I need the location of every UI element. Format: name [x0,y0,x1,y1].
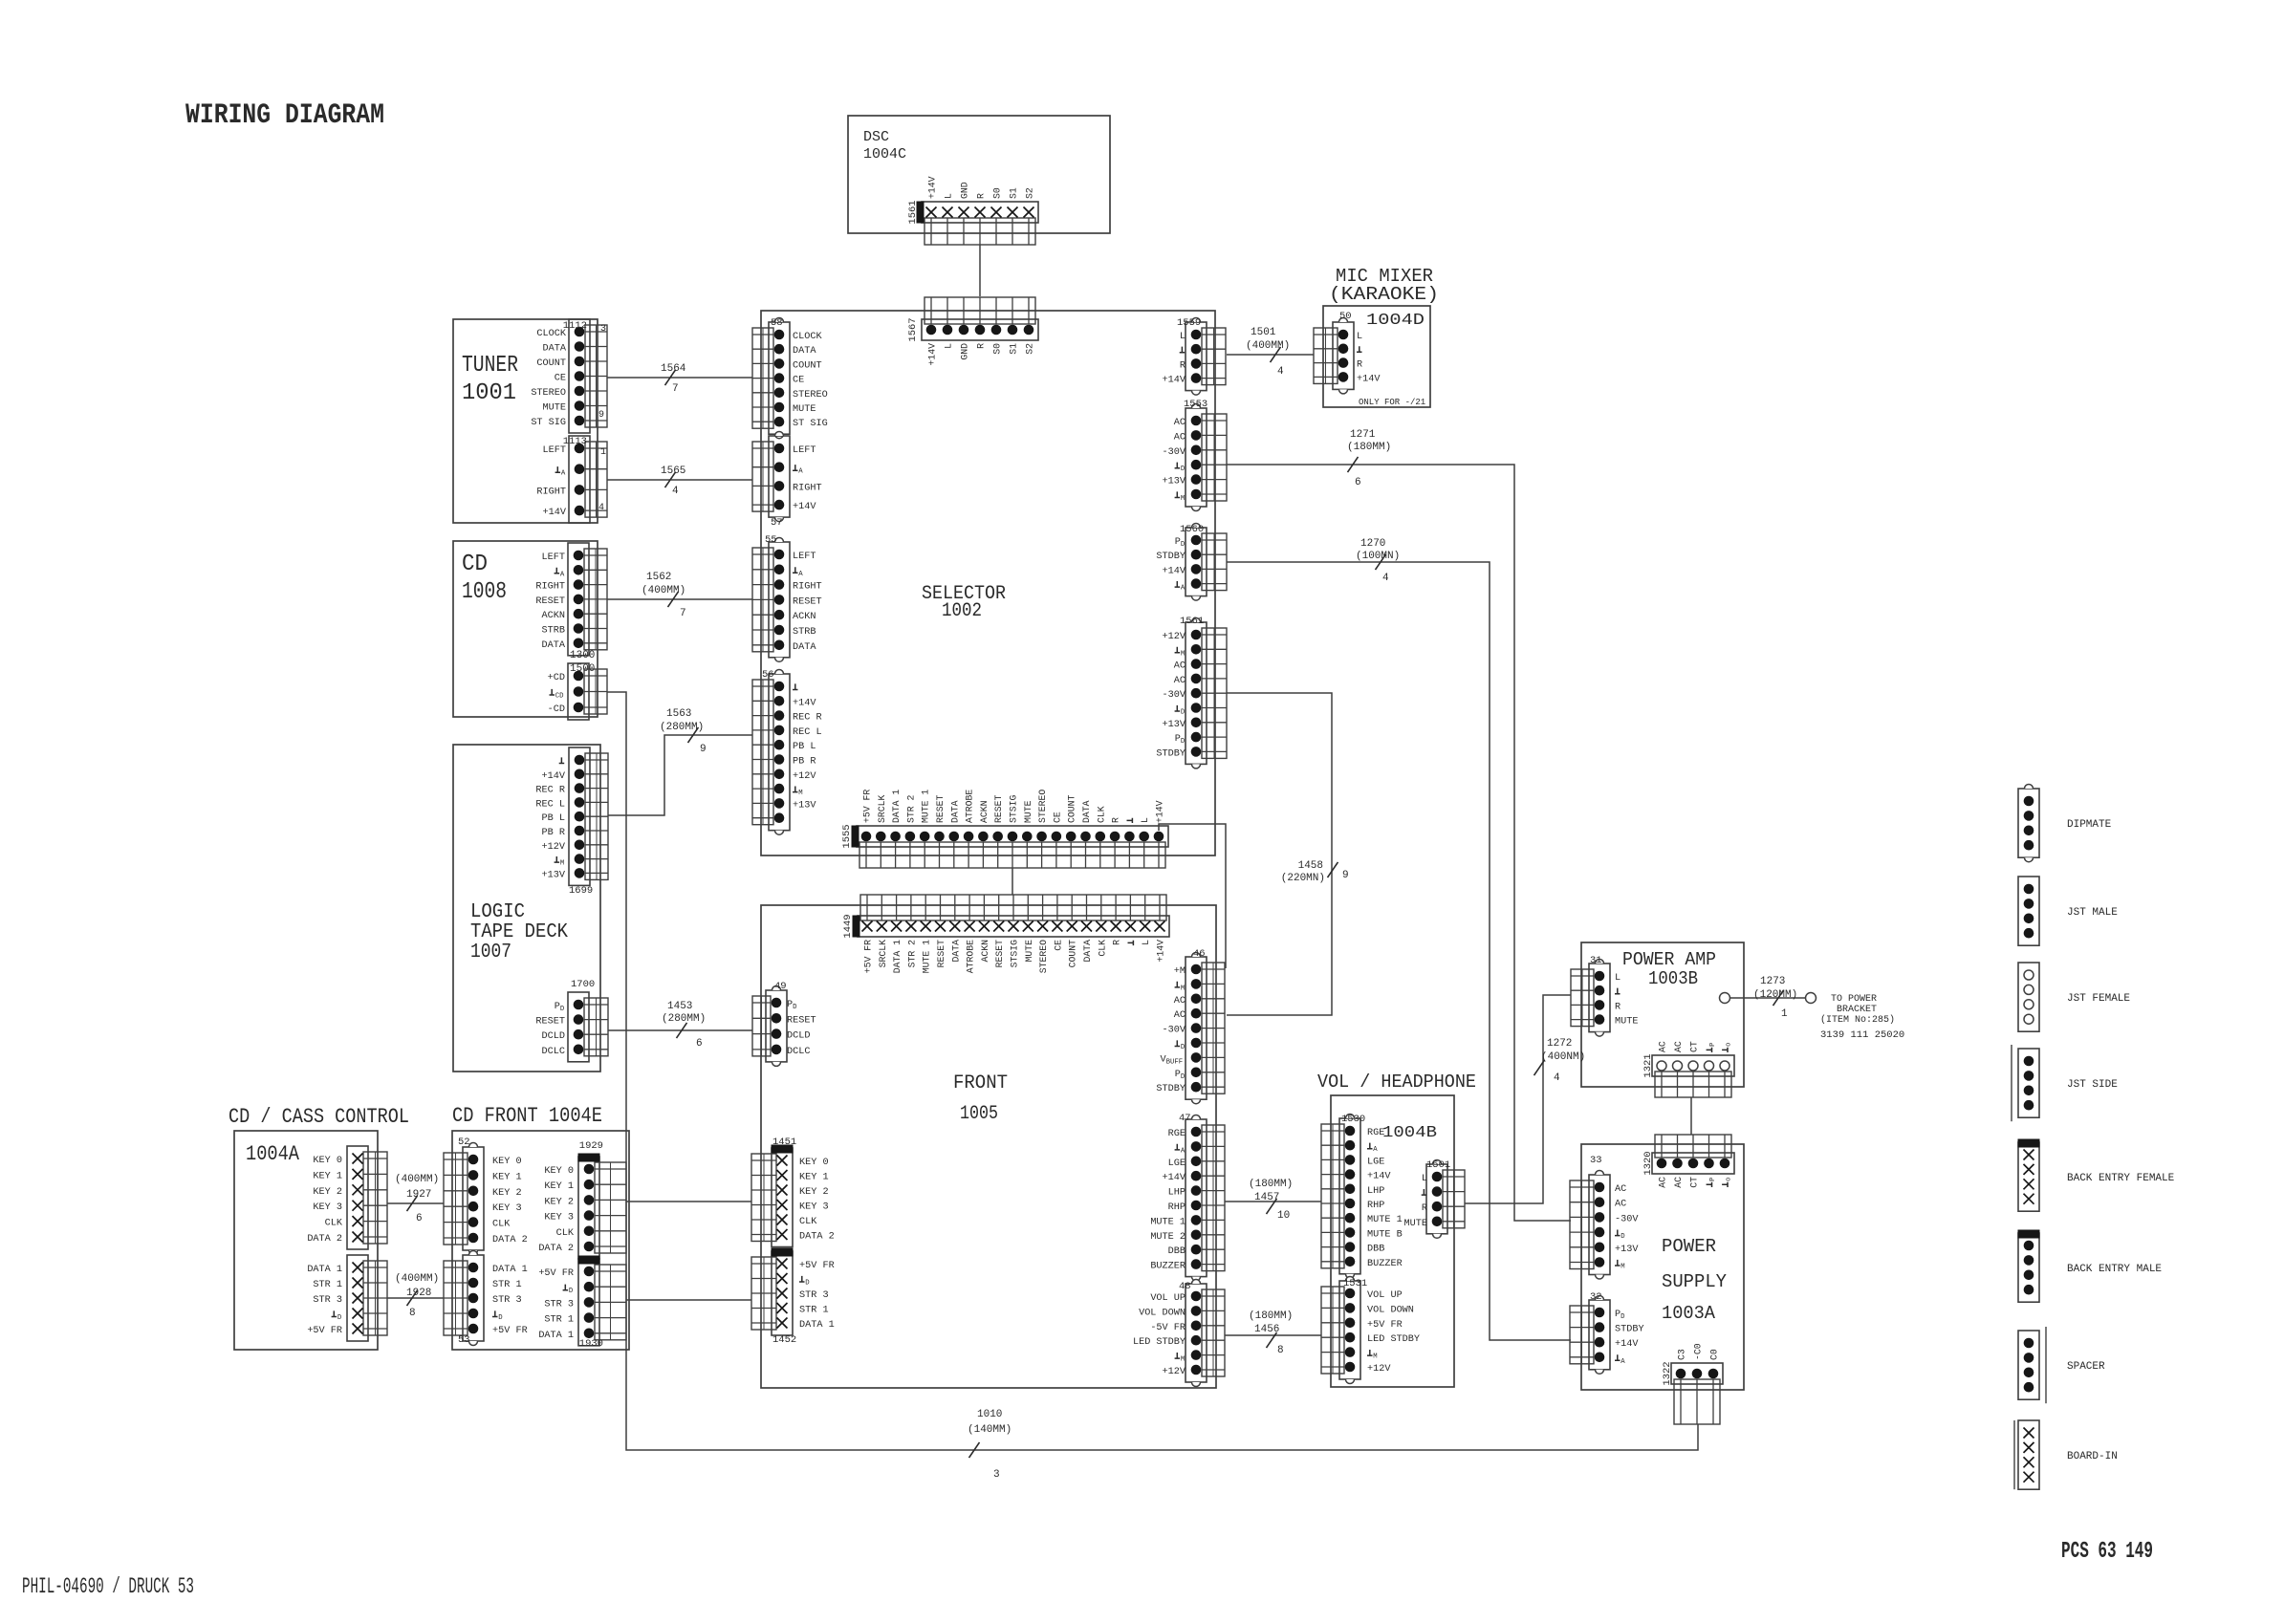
svg-text:31: 31 [1590,955,1602,966]
svg-text:DATA 2: DATA 2 [799,1232,835,1243]
wire 1453 [608,1001,752,1050]
svg-text:+CD: +CD [548,673,565,683]
svg-text:1700: 1700 [571,979,595,990]
svg-text:S1: S1 [1009,187,1019,199]
svg-text:AC: AC [1174,661,1186,672]
module title MIC MIXER (KARAOKE) [1329,266,1439,305]
svg-text:STSIG: STSIG [1009,794,1019,823]
svg-text:S0: S0 [992,343,1003,355]
svg-text:+14V: +14V [927,176,938,199]
svg-text:8: 8 [409,1308,416,1319]
svg-text:LEFT: LEFT [793,552,816,562]
svg-text:+14V: +14V [793,502,816,512]
svg-text:AC: AC [1174,432,1186,443]
svg-text:1005: 1005 [960,1103,998,1125]
svg-text:(400NM): (400NM) [1541,1051,1585,1063]
svg-text:REC R: REC R [793,713,822,724]
svg-text:R: R [1111,817,1121,823]
svg-text:BOARD-IN: BOARD-IN [2067,1451,2118,1462]
legend BOARD-IN [2014,1420,2118,1489]
svg-text:+5V FR: +5V FR [1367,1320,1403,1331]
svg-text:BUZZER: BUZZER [1367,1259,1403,1269]
svg-text:KEY 3: KEY 3 [492,1203,522,1214]
svg-text:PB R: PB R [542,828,565,838]
svg-text:1553: 1553 [1184,399,1207,410]
svg-text:+12V: +12V [793,771,816,782]
svg-text:LEFT: LEFT [793,445,816,456]
legend BACK ENTRY FEMALE [2018,1139,2175,1211]
connector 1930 (cd front) [538,1256,626,1350]
svg-text:1272: 1272 [1547,1038,1572,1050]
connector 1531 (vol/headphone) [1321,1277,1420,1384]
svg-text:9: 9 [700,744,707,755]
legend SPACER [2018,1327,2105,1403]
svg-text:DATA: DATA [949,800,960,823]
svg-text:+14V: +14V [542,771,566,782]
svg-text:1567: 1567 [907,317,919,341]
svg-text:MUTE 1: MUTE 1 [1150,1217,1186,1227]
svg-text:DBB: DBB [1367,1245,1384,1255]
svg-text:1113: 1113 [563,436,587,447]
svg-text:1559: 1559 [1177,317,1201,329]
svg-text:+5V FR: +5V FR [863,940,874,973]
svg-text:1530: 1530 [1341,1114,1365,1125]
svg-text:CE: CE [1053,940,1063,951]
svg-text:+14V: +14V [1155,800,1165,823]
svg-text:DATA 1: DATA 1 [492,1265,528,1275]
svg-text:LEFT: LEFT [542,552,565,563]
svg-text:D: D [337,1314,342,1322]
svg-text:+14V: +14V [793,698,816,708]
svg-text:P: P [1709,1178,1717,1181]
svg-text:56: 56 [762,669,774,681]
svg-text:STR 1: STR 1 [544,1315,574,1326]
svg-text:ACKN: ACKN [980,940,990,963]
svg-text:+5V FR: +5V FR [492,1326,528,1336]
svg-text:TUNER: TUNER [462,353,518,379]
svg-text:(400MM): (400MM) [395,1273,439,1285]
svg-text:+13V: +13V [1163,477,1186,487]
svg-text:KEY 1: KEY 1 [313,1171,342,1181]
legend JST FEMALE [2018,963,2130,1031]
connector 1112 (tuner) [531,319,607,433]
svg-text:+13V: +13V [793,800,816,811]
wire 1321 to 1320 [1690,1097,1692,1135]
svg-text:(120MM): (120MM) [1753,989,1797,1001]
svg-text:SRCLK: SRCLK [877,794,887,823]
svg-text:1560: 1560 [1180,524,1204,535]
svg-text:LOGIC: LOGIC [470,901,525,923]
svg-text:PHIL-04690 / DRUCK 53: PHIL-04690 / DRUCK 53 [22,1574,194,1599]
svg-text:D: D [569,1288,574,1295]
svg-text:48: 48 [1179,1281,1191,1292]
module title LOGIC TAPE DECK 1007 [470,901,568,964]
svg-text:JST SIDE: JST SIDE [2067,1079,2118,1091]
connector 56 (selector) [752,669,822,834]
wire 1562 [607,572,752,619]
svg-text:R: R [976,343,987,349]
svg-text:KEY 2: KEY 2 [544,1197,574,1207]
svg-text:CD / CASS CONTROL: CD / CASS CONTROL [228,1105,409,1129]
svg-text:STDBY: STDBY [1156,552,1186,562]
connector 48 (front) [1133,1280,1225,1387]
svg-text:+5V FR: +5V FR [538,1268,574,1279]
svg-text:BRACKET: BRACKET [1837,1005,1877,1015]
svg-text:D: D [498,1314,503,1322]
connector 1321 (power amp, jst female) [1642,1041,1734,1097]
svg-text:CD: CD [462,552,488,577]
svg-text:TO POWER: TO POWER [1831,994,1877,1005]
svg-text:DATA 2: DATA 2 [538,1244,574,1254]
svg-text:1452: 1452 [772,1334,796,1346]
wire 1928 [387,1273,444,1319]
svg-text:FRONT: FRONT [953,1072,1008,1094]
svg-text:DATA 2: DATA 2 [492,1235,528,1245]
connector 1320 (power supply) [1642,1135,1734,1188]
svg-text:1928: 1928 [406,1288,431,1299]
svg-text:MUTE B: MUTE B [1367,1229,1403,1240]
svg-text:M: M [1181,1356,1185,1364]
svg-text:STEREO: STEREO [531,388,566,399]
svg-text:1501: 1501 [1426,1159,1450,1171]
wire 1929 to 1451 [626,1201,751,1202]
svg-text:PB R: PB R [793,757,816,768]
svg-text:M: M [1181,650,1185,658]
svg-text:DATA 2: DATA 2 [307,1234,342,1245]
svg-text:KEY 1: KEY 1 [544,1181,574,1192]
wire 1456 [1225,1310,1321,1356]
svg-text:+14V: +14V [543,508,567,518]
svg-text:VOL UP: VOL UP [1367,1290,1403,1301]
svg-text:STDBY: STDBY [1615,1325,1644,1335]
svg-text:1930: 1930 [579,1338,603,1350]
svg-text:RIGHT: RIGHT [536,487,566,497]
legend JST SIDE [2012,1045,2118,1121]
connector 50 (mic mixer) [1314,311,1381,394]
svg-text:+13V: +13V [542,870,566,880]
svg-text:LHP: LHP [1367,1186,1384,1197]
svg-text:VOL DOWN: VOL DOWN [1139,1308,1186,1318]
svg-text:D: D [1181,709,1186,717]
module title CD 1008 [462,552,507,605]
svg-text:L: L [944,343,954,349]
svg-text:6: 6 [416,1213,423,1224]
svg-text:-30V: -30V [1163,690,1186,701]
svg-text:R: R [976,193,987,199]
wire 1565 [607,466,752,497]
svg-text:REC L: REC L [535,799,565,810]
svg-text:+14V: +14V [927,343,938,366]
svg-text:PB L: PB L [793,742,816,752]
svg-text:KEY 0: KEY 0 [313,1156,342,1166]
module box VOL/HEADPHONE 1004B [1331,1095,1454,1387]
svg-text:RIGHT: RIGHT [535,582,565,593]
svg-text:KEY 1: KEY 1 [799,1173,829,1183]
svg-text:CLK: CLK [492,1220,511,1230]
svg-text:SPACER: SPACER [2067,1361,2105,1373]
svg-text:A: A [560,571,565,578]
svg-text:1321: 1321 [1642,1053,1654,1077]
svg-text:1270: 1270 [1360,538,1385,550]
svg-text:(280MM): (280MM) [662,1013,706,1025]
svg-text:ACKN: ACKN [793,612,816,622]
svg-text:PB L: PB L [542,813,565,824]
connector 46 (front) [1156,948,1225,1104]
svg-text:DCLD: DCLD [542,1031,565,1042]
svg-text:-30V: -30V [1163,1026,1186,1036]
svg-text:AC: AC [1673,1177,1684,1188]
module title 1004D [1359,312,1425,407]
svg-text:DATA: DATA [1082,940,1093,963]
connector 1004A lower (back-entry) [307,1255,387,1341]
connector cd lower [548,663,607,720]
svg-text:AC: AC [1615,1200,1626,1210]
connector 1452 (front, back-entry) [751,1248,835,1346]
svg-text:1300: 1300 [570,650,595,661]
svg-text:ACKN: ACKN [542,611,565,621]
svg-text:LHP: LHP [1168,1188,1186,1199]
connector 53 (cd front) [444,1251,528,1347]
svg-text:1451: 1451 [772,1137,796,1148]
svg-text:RIGHT: RIGHT [793,483,822,493]
svg-text:1449: 1449 [842,914,854,938]
svg-text:+12V: +12V [1163,632,1186,642]
page title [185,99,384,132]
svg-text:DSC: DSC [863,129,889,145]
svg-text:VOL DOWN: VOL DOWN [1367,1305,1414,1315]
wire 1457 [1225,1179,1321,1222]
svg-text:CLK: CLK [556,1228,575,1239]
svg-text:6: 6 [696,1038,703,1050]
wire 1555 +14V feed to connector 46 [1159,824,1226,968]
svg-text:GND: GND [960,343,970,360]
svg-text:9: 9 [598,410,604,421]
svg-text:L: L [1140,817,1150,823]
svg-text:R: R [1615,1002,1621,1012]
svg-text:A: A [1181,585,1186,593]
svg-text:CE: CE [1052,812,1062,823]
svg-text:COUNT: COUNT [793,360,822,371]
svg-text:L: L [1357,332,1362,342]
svg-text:ATROBE: ATROBE [966,940,976,973]
svg-text:RESET: RESET [787,1015,816,1026]
module title SELECTOR 1002 [922,583,1006,622]
svg-text:CT: CT [1689,1041,1700,1052]
svg-text:7: 7 [672,383,679,395]
wire 1272 [1465,995,1585,1203]
svg-text:RESET: RESET [935,794,946,823]
svg-text:AC: AC [1174,676,1186,686]
svg-text:1929: 1929 [579,1140,603,1152]
svg-text:REC R: REC R [535,786,565,796]
svg-text:(400MM): (400MM) [1246,340,1290,352]
svg-text:DATA: DATA [793,346,816,357]
svg-text:A: A [1373,1146,1378,1154]
svg-text:A: A [1181,1147,1186,1155]
svg-text:4: 4 [598,503,604,513]
connector 1929 (cd front) [538,1140,626,1259]
svg-text:(400MM): (400MM) [642,585,685,596]
svg-text:1003B: 1003B [1648,968,1698,989]
wire 1564 [607,363,752,395]
svg-text:R: R [1422,1203,1427,1214]
module box CD/CASS CONTROL 1004A [234,1131,378,1350]
connector 58 (selector) [752,317,828,439]
svg-text:CE: CE [793,376,804,386]
svg-text:PCS 63 149: PCS 63 149 [2061,1539,2153,1565]
svg-text:LGE: LGE [1168,1158,1186,1169]
svg-text:LED STDBY: LED STDBY [1133,1337,1186,1348]
svg-text:1: 1 [1781,1008,1788,1020]
module title 1004A [246,1142,300,1166]
svg-text:1: 1 [600,447,606,458]
svg-text:4: 4 [672,486,679,497]
svg-text:BUFF: BUFF [1166,1058,1184,1066]
module box SELECTOR 1002 [761,311,1215,855]
svg-text:S2: S2 [1025,343,1035,355]
svg-text:57: 57 [771,517,783,529]
svg-text:CT: CT [1689,1177,1700,1188]
svg-text:AC: AC [1174,418,1186,428]
svg-text:STR 2: STR 2 [905,794,916,823]
svg-text:STR 1: STR 1 [313,1280,342,1290]
svg-text:KEY 0: KEY 0 [492,1157,522,1167]
svg-text:(ITEM No:285): (ITEM No:285) [1820,1014,1895,1026]
module box TUNER 1001 [453,319,598,523]
module box POWER SUPPLY 1003A [1581,1144,1744,1390]
svg-text:(400MM): (400MM) [395,1174,439,1185]
svg-text:3139 111 25020: 3139 111 25020 [1820,1029,1904,1041]
svg-text:-30V: -30V [1163,447,1186,458]
svg-text:49: 49 [774,981,787,992]
connector 1561 (selector) [1156,616,1227,769]
svg-text:M: M [560,860,564,868]
svg-text:S2: S2 [1025,187,1035,199]
svg-text:MUTE: MUTE [543,403,566,414]
svg-text:KEY 2: KEY 2 [799,1187,829,1198]
svg-text:RESET: RESET [793,596,822,607]
footer PHIL-04690 / DRUCK 53 [22,1574,194,1599]
svg-text:D: D [1181,1044,1186,1051]
svg-text:4: 4 [1554,1072,1560,1084]
connector 52 (cd front) [444,1137,528,1255]
svg-text:CLK: CLK [325,1219,343,1229]
svg-text:ST SIG: ST SIG [793,419,828,429]
svg-text:STR 1: STR 1 [492,1280,522,1290]
svg-text:1010: 1010 [977,1409,1002,1420]
svg-text:RIGHT: RIGHT [793,582,822,593]
svg-text:47: 47 [1179,1113,1191,1124]
svg-text:CD: CD [555,693,564,701]
svg-text:+14V: +14V [1163,566,1186,576]
svg-text:1004A: 1004A [246,1142,300,1166]
svg-text:6: 6 [1355,477,1361,488]
svg-text:DATA 1: DATA 1 [892,940,903,973]
svg-text:BUZZER: BUZZER [1150,1262,1186,1272]
svg-text:+M: +M [1174,966,1186,977]
module box CD 1008 [453,541,598,717]
connector 47 (front) [1150,1113,1225,1281]
svg-text:R: R [1112,940,1122,945]
svg-text:D: D [1181,541,1186,549]
svg-text:+14V: +14V [1156,940,1166,963]
svg-text:1003A: 1003A [1662,1303,1716,1324]
svg-text:L: L [1180,332,1186,342]
legend DIPMATE [2018,785,2112,862]
svg-text:1002: 1002 [942,600,982,622]
legend BACK ENTRY MALE [2018,1230,2162,1302]
svg-text:L: L [1422,1174,1427,1184]
connector 1555 (selector bottom bus) [841,790,1168,868]
connector 1567 (selector top) [907,297,1038,366]
svg-text:RESET: RESET [994,940,1005,968]
svg-text:RHP: RHP [1168,1202,1186,1213]
legend JST MALE [2018,877,2118,945]
svg-text:TAPE DECK: TAPE DECK [470,921,568,943]
connector 1699 (tape deck) [535,747,608,897]
svg-text:DCLC: DCLC [787,1047,810,1057]
module box DSC 1004C [848,116,1110,233]
svg-text:LED STDBY: LED STDBY [1367,1334,1420,1345]
svg-text:1271: 1271 [1350,429,1376,441]
connector 1501 (vol/headphone out) [1404,1159,1465,1238]
svg-text:1004D: 1004D [1366,312,1425,330]
note TO POWER BRACKET [1820,994,1904,1041]
svg-text:52: 52 [458,1137,470,1148]
svg-text:ATROBE: ATROBE [965,790,975,823]
svg-text:DATA 1: DATA 1 [891,790,902,823]
svg-text:WIRING DIAGRAM: WIRING DIAGRAM [185,99,384,132]
svg-text:C0: C0 [1709,1349,1720,1360]
svg-text:D: D [1181,1073,1186,1081]
connector 1561 (DSC, back-entry female) [907,176,1038,245]
svg-text:M: M [1181,985,1185,992]
svg-text:4: 4 [1277,366,1284,378]
wire 1010 ground run [607,692,1698,1481]
svg-text:STEREO: STEREO [793,390,828,401]
connector 49 (front) [752,981,816,1066]
svg-text:L: L [944,193,954,199]
svg-text:S1: S1 [1009,343,1019,355]
svg-text:DATA: DATA [1081,800,1092,823]
connector 31 (power amp) [1571,955,1638,1036]
module title DSC 1004C [863,129,906,162]
svg-text:+12V: +12V [542,842,566,853]
svg-text:(180MM): (180MM) [1347,442,1391,453]
svg-text:KEY 0: KEY 0 [799,1158,829,1168]
svg-text:58: 58 [771,317,783,329]
wire 1563 [608,708,752,815]
wire 1273 to power bracket [1720,976,1816,1020]
svg-text:9: 9 [1342,870,1349,881]
svg-text:53: 53 [458,1334,470,1346]
svg-text:8: 8 [1277,1345,1284,1356]
svg-text:10: 10 [1277,1210,1290,1222]
svg-text:STR 3: STR 3 [544,1299,574,1310]
svg-text:STEREO: STEREO [1038,940,1049,973]
connector 1004A upper (back-entry) [307,1146,387,1249]
svg-text:KEY 0: KEY 0 [544,1166,574,1177]
wire 1930 to 1452 [626,1299,751,1301]
svg-text:JST MALE: JST MALE [2067,907,2118,919]
svg-text:+12V: +12V [1367,1364,1391,1375]
svg-text:D: D [1181,738,1186,746]
wire 1458 [1227,693,1349,1015]
svg-text:7: 7 [680,608,686,619]
wire 1271 [1227,429,1571,1221]
svg-text:KEY 1: KEY 1 [492,1172,522,1182]
connector 1560 (selector) [1156,524,1227,601]
